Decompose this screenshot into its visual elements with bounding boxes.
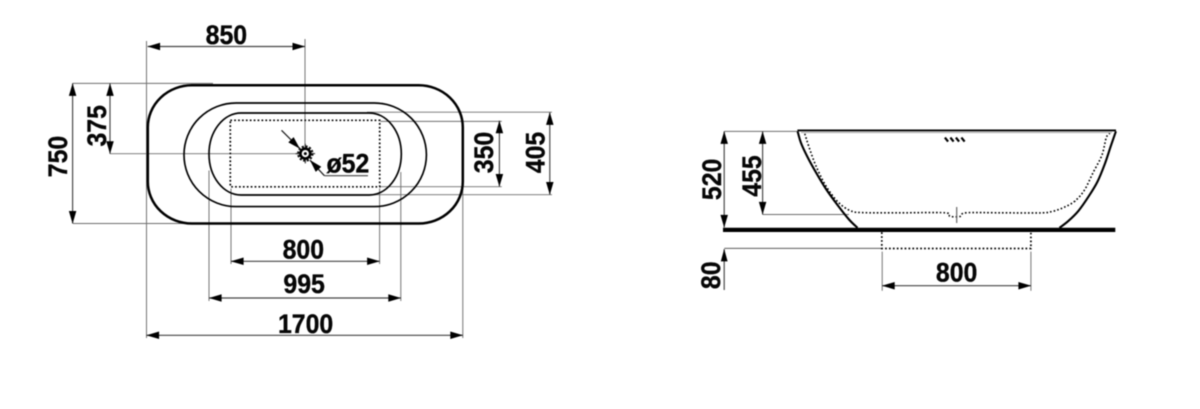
svg-text:350: 350 <box>470 132 499 173</box>
svg-text:750: 750 <box>44 136 73 177</box>
svg-text:995: 995 <box>283 270 324 299</box>
svg-text:1700: 1700 <box>278 310 333 339</box>
svg-text:ø52: ø52 <box>327 150 370 179</box>
svg-text:375: 375 <box>83 105 112 146</box>
svg-text:800: 800 <box>936 259 977 288</box>
svg-text:80: 80 <box>697 261 726 289</box>
svg-text:405: 405 <box>522 132 551 173</box>
svg-text:850: 850 <box>206 21 247 50</box>
svg-text:800: 800 <box>283 236 324 265</box>
svg-text:455: 455 <box>738 155 767 196</box>
svg-text:520: 520 <box>698 159 727 200</box>
